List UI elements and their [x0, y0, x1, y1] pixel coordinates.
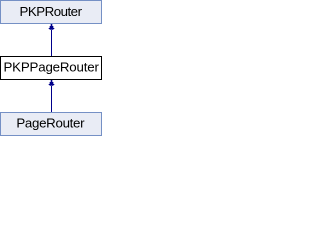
node PKPPageRouter (current class box) — [1, 57, 102, 80]
node PKPRouter (base class box) — [1, 1, 102, 24]
svg-text:PKPRouter: PKPRouter — [19, 4, 82, 19]
node PageRouter (derived class box) — [1, 113, 102, 136]
inheritance arrow PageRouter -> PKPPageRouter — [48, 80, 55, 112]
svg-text:PKPPageRouter: PKPPageRouter — [3, 59, 99, 74]
inheritance arrow PKPPageRouter -> PKPRouter — [48, 24, 55, 56]
svg-text:PageRouter: PageRouter — [16, 116, 85, 131]
